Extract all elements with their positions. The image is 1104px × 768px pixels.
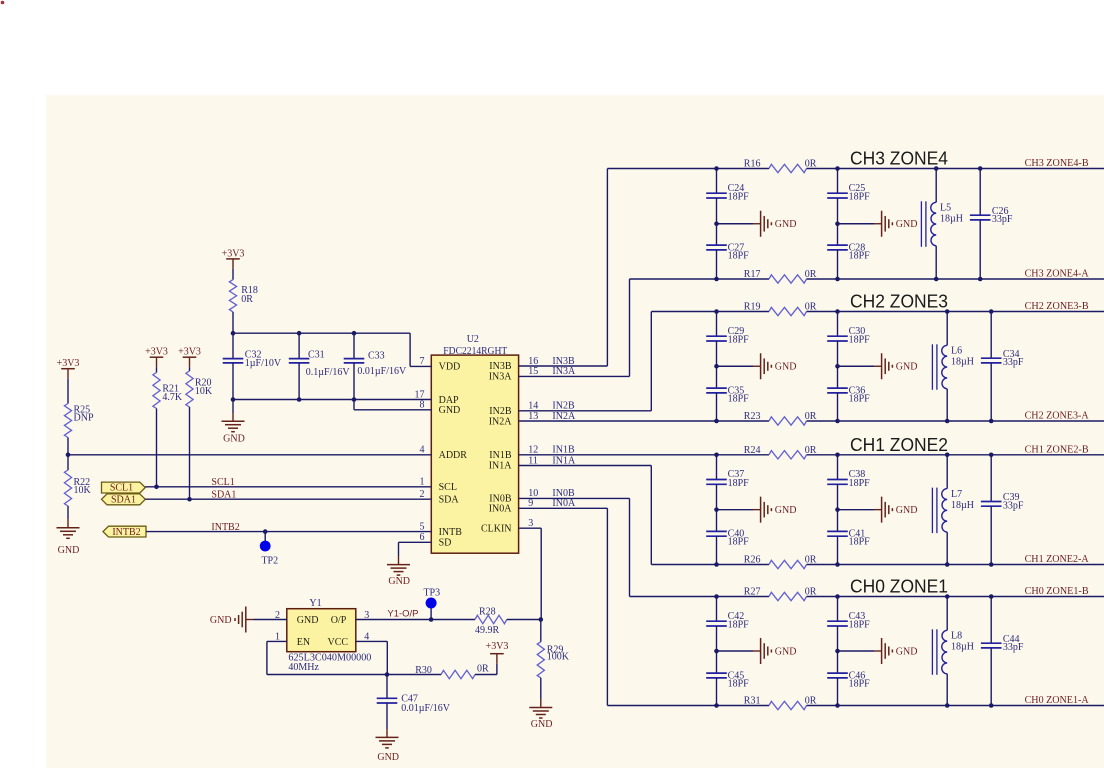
svg-text:11: 11 <box>528 455 538 466</box>
wire SD pin6 to ground <box>399 541 432 543</box>
junction dots on VDD rails <box>231 331 236 336</box>
svg-text:CH3 ZONE4: CH3 ZONE4 <box>850 148 948 169</box>
capacitor C25 18PF <box>837 169 839 194</box>
capacitor C37 18PF <box>716 455 718 480</box>
svg-text:IN1B: IN1B <box>489 450 512 461</box>
svg-text:+3V3: +3V3 <box>145 347 168 358</box>
wire to ground 1 <box>717 650 754 652</box>
svg-text:FDC2214RGHT: FDC2214RGHT <box>443 346 507 357</box>
svg-text:12: 12 <box>528 445 538 456</box>
wire CH2 ZONE3-A bottom rail <box>519 420 769 422</box>
wire IN0B pin10 to CH0 top <box>519 497 630 499</box>
svg-text:L5: L5 <box>940 203 951 214</box>
svg-text:SCL1: SCL1 <box>110 483 133 494</box>
svg-text:IN2A: IN2A <box>489 417 513 428</box>
wire IN0A pin9 to CH0 bottom <box>519 507 608 509</box>
junction dots <box>714 166 719 171</box>
capacitor C27 18PF <box>716 224 718 245</box>
node TP3 junction <box>429 617 434 622</box>
resistor R25 DNP <box>67 379 69 404</box>
capacitor C26 33pF <box>979 169 981 216</box>
svg-text:18PF: 18PF <box>728 678 750 689</box>
svg-text:ADDR: ADDR <box>439 450 468 461</box>
svg-text:4.7K: 4.7K <box>162 392 183 403</box>
inductor L8 18uH <box>946 597 948 631</box>
wire CH1 ZONE2-B top rail <box>519 454 769 456</box>
resistor R17 0R <box>769 275 807 283</box>
svg-text:SCL1: SCL1 <box>211 477 234 488</box>
svg-text:0R: 0R <box>805 555 817 566</box>
svg-text:Y1: Y1 <box>309 598 321 609</box>
wire CLKIN pin3 down to oscillator node <box>519 527 542 529</box>
svg-text:1: 1 <box>420 477 425 488</box>
wire to ground 1 <box>717 509 754 511</box>
wire ground rail branch to GND pin8 <box>353 400 355 410</box>
resistor R26 0R <box>769 560 807 568</box>
svg-text:100K: 100K <box>547 652 570 663</box>
wire CH3 ZONE4-B top rail <box>607 168 769 170</box>
wire CH0 ZONE1-A bottom rail <box>607 705 769 707</box>
svg-text:0R: 0R <box>241 294 253 305</box>
wire to ground 2 <box>838 365 875 367</box>
svg-text:GND: GND <box>377 752 399 763</box>
svg-text:7: 7 <box>420 356 425 367</box>
capacitor C47 0.01uF/16V <box>386 675 388 699</box>
wire R18 to VDD rail <box>232 312 234 333</box>
wire to ground 1 <box>717 223 754 225</box>
capacitor C36 18PF <box>837 366 839 388</box>
svg-text:0.01µF/16V: 0.01µF/16V <box>357 366 407 377</box>
svg-text:GND: GND <box>388 576 410 587</box>
svg-text:10K: 10K <box>74 485 92 496</box>
svg-text:SDA1: SDA1 <box>211 489 236 500</box>
svg-text:49.9R: 49.9R <box>475 625 500 636</box>
junction dots <box>714 594 719 599</box>
svg-text:40MHz: 40MHz <box>288 662 319 673</box>
svg-text:CH2 ZONE3-B: CH2 ZONE3-B <box>1025 301 1089 312</box>
capacitor C32 1uF/10V <box>232 333 234 358</box>
wire Y1 EN pin1 <box>267 640 287 642</box>
capacitor C43 18PF <box>837 597 839 622</box>
capacitor C39 33pF <box>990 455 992 502</box>
svg-text:IN1B: IN1B <box>552 445 575 456</box>
resistor R30 0R <box>387 674 441 676</box>
svg-text:18PF: 18PF <box>849 537 871 548</box>
svg-text:Y1-O/P: Y1-O/P <box>387 609 418 620</box>
capacitor C44 33pF <box>990 597 992 644</box>
svg-text:18µH: 18µH <box>951 357 974 368</box>
svg-text:18PF: 18PF <box>849 335 871 346</box>
ground GND <box>881 211 883 237</box>
svg-text:EN: EN <box>297 637 310 648</box>
wire CH0 ZONE1-B top rail <box>630 596 770 598</box>
svg-text:3: 3 <box>528 518 533 529</box>
svg-text:IN1A: IN1A <box>489 461 513 472</box>
capacitor C42 18PF <box>716 597 718 622</box>
svg-text:R17: R17 <box>744 269 761 280</box>
svg-text:SDA1: SDA1 <box>111 495 136 506</box>
svg-text:VDD: VDD <box>439 362 461 373</box>
svg-text:18PF: 18PF <box>849 192 871 203</box>
resistor R18 0R <box>232 269 234 280</box>
wire SDA1 to pin2 <box>145 498 431 500</box>
resistor R23 0R <box>769 417 807 425</box>
svg-text:CH0 ZONE1-B: CH0 ZONE1-B <box>1025 586 1089 597</box>
svg-text:10K: 10K <box>195 386 213 397</box>
cursor artifact dot top-left <box>1 1 5 5</box>
svg-text:CH3 ZONE4-B: CH3 ZONE4-B <box>1025 158 1089 169</box>
node R21-SCL1 junction <box>154 485 159 490</box>
svg-text:IN0A: IN0A <box>489 504 513 515</box>
ground GND <box>760 211 762 237</box>
wire VDD rail <box>233 332 410 334</box>
wire IN2A pin13 to CH2 bottom <box>518 420 520 422</box>
ground GND under R22 <box>57 527 80 529</box>
oscillator Y1 body <box>287 609 356 652</box>
wire INTB2 to pin5 <box>146 531 431 533</box>
svg-text:DNP: DNP <box>74 413 94 424</box>
ground GND left of Y1 <box>245 607 247 633</box>
svg-text:R30: R30 <box>415 665 432 676</box>
svg-text:33pF: 33pF <box>992 214 1013 225</box>
wire to TP2 <box>264 532 266 542</box>
svg-text:CH2 ZONE3: CH2 ZONE3 <box>850 291 948 312</box>
svg-text:SDA: SDA <box>439 494 460 505</box>
svg-text:SD: SD <box>439 538 452 549</box>
svg-text:GND: GND <box>297 615 319 626</box>
wire ground rail to DAP pin17 <box>233 399 431 401</box>
resistor R29 100K <box>540 620 542 642</box>
wire IN3A pin15 to CH3 bottom <box>519 375 630 377</box>
junction dots <box>714 453 719 458</box>
wire to ground 2 <box>838 223 875 225</box>
svg-text:1µF/10V: 1µF/10V <box>245 358 282 369</box>
svg-text:GND: GND <box>775 362 797 373</box>
svg-text:INTB2: INTB2 <box>211 522 239 533</box>
svg-text:VCC: VCC <box>328 637 349 648</box>
svg-text:GND: GND <box>775 219 797 230</box>
svg-text:L7: L7 <box>951 489 962 500</box>
resistor R19 0R <box>769 307 807 315</box>
wire R21 to SCL1 net <box>156 409 158 487</box>
wire VDD rail to pin7 <box>409 333 411 366</box>
svg-text:GND: GND <box>775 505 797 516</box>
resistor R28 49.9R <box>430 619 475 621</box>
ground GND <box>881 353 883 379</box>
inductor L6 18uH <box>946 312 948 346</box>
node R28-R29-CLKIN junction <box>539 617 544 622</box>
svg-text:+3V3: +3V3 <box>222 248 245 259</box>
inductor L7 18uH <box>946 455 948 489</box>
svg-text:15: 15 <box>528 366 538 377</box>
capacitor C28 18PF <box>837 224 839 245</box>
wire R25 to ADDR <box>67 438 69 455</box>
wire to ground 2 <box>838 509 875 511</box>
svg-text:IN3B: IN3B <box>489 361 512 372</box>
wire IN3B pin16 to CH3 top <box>519 365 608 367</box>
svg-text:18PF: 18PF <box>849 620 871 631</box>
svg-text:18PF: 18PF <box>849 250 871 261</box>
ground GND <box>760 497 762 523</box>
wire to ground 1 <box>717 365 754 367</box>
wire Y1 VCC pin4 <box>356 640 388 642</box>
capacitor C29 18PF <box>716 312 718 337</box>
resistor R21 4.7K <box>156 367 158 372</box>
resistor R31 0R <box>769 701 807 709</box>
svg-text:GND: GND <box>223 434 245 445</box>
svg-text:C31: C31 <box>308 350 325 361</box>
capacitor C34 33pF <box>990 312 992 359</box>
svg-text:CH0 ZONE1: CH0 ZONE1 <box>850 576 948 597</box>
svg-text:GND: GND <box>896 362 918 373</box>
capacitor C40 18PF <box>716 510 718 532</box>
svg-text:O/P: O/P <box>331 615 347 626</box>
svg-text:18µH: 18µH <box>951 500 974 511</box>
capacitor C45 18PF <box>716 651 718 673</box>
svg-text:14: 14 <box>528 401 538 412</box>
resistor R22 10K <box>67 455 69 470</box>
svg-text:18PF: 18PF <box>728 335 750 346</box>
svg-text:GND: GND <box>775 646 797 657</box>
svg-text:0R: 0R <box>805 269 817 280</box>
svg-text:0.01µF/16V: 0.01µF/16V <box>401 703 451 714</box>
capacitor C35 18PF <box>716 366 718 388</box>
svg-text:CH2 ZONE3-A: CH2 ZONE3-A <box>1025 411 1090 422</box>
capacitor C30 18PF <box>837 312 839 337</box>
capacitor C24 18PF <box>716 169 718 194</box>
ground GND under C47 <box>386 729 388 737</box>
svg-text:IN3B: IN3B <box>552 356 575 367</box>
wire CH2 ZONE3-B top rail <box>651 311 769 313</box>
svg-text:R24: R24 <box>744 445 761 456</box>
ground GND under C32 <box>222 420 245 422</box>
flag INTB2 <box>103 526 146 537</box>
svg-text:0R: 0R <box>805 159 817 170</box>
svg-text:INTB2: INTB2 <box>112 527 140 538</box>
svg-text:+3V3: +3V3 <box>178 347 201 358</box>
svg-text:TP3: TP3 <box>423 588 440 599</box>
svg-text:0R: 0R <box>805 445 817 456</box>
svg-text:L6: L6 <box>951 346 962 357</box>
node C47 junction <box>385 672 390 677</box>
wire R30 to +3V3 <box>496 664 498 675</box>
wire C32 to ground <box>232 400 234 414</box>
svg-text:IN0A: IN0A <box>552 498 576 509</box>
svg-text:IN2B: IN2B <box>489 406 512 417</box>
svg-text:TP2: TP2 <box>261 556 278 567</box>
svg-text:U2: U2 <box>467 334 479 345</box>
wire ADDR to pin4 <box>68 454 431 456</box>
svg-text:GND: GND <box>210 615 232 626</box>
svg-text:IN2B: IN2B <box>552 401 575 412</box>
svg-text:R31: R31 <box>744 696 761 707</box>
svg-text:+3V3: +3V3 <box>57 358 80 369</box>
wire to ground 2 <box>838 650 875 652</box>
svg-text:SCL: SCL <box>439 482 457 493</box>
svg-text:R27: R27 <box>744 587 761 598</box>
svg-text:R23: R23 <box>744 411 761 422</box>
ground GND <box>760 353 762 379</box>
svg-text:R16: R16 <box>744 159 761 170</box>
capacitor C41 18PF <box>837 510 839 532</box>
svg-text:16: 16 <box>528 356 538 367</box>
svg-text:18PF: 18PF <box>849 478 871 489</box>
junction dots <box>714 309 719 314</box>
svg-text:GND: GND <box>58 545 80 556</box>
svg-text:IN3A: IN3A <box>552 366 576 377</box>
ground GND under SD <box>387 564 410 566</box>
svg-text:9: 9 <box>528 498 533 509</box>
node ADDR junction <box>66 453 71 458</box>
wire R20 to SDA1 net <box>189 407 191 499</box>
wire to TP3 <box>430 608 432 620</box>
flag SCL1 <box>102 482 146 493</box>
wire Y1 O/P pin3 to CLKIN node <box>356 619 430 621</box>
wire IN2B pin14 to CH2 top <box>519 410 652 412</box>
svg-text:4: 4 <box>420 445 425 456</box>
svg-text:8: 8 <box>420 400 425 411</box>
svg-text:L8: L8 <box>951 631 962 642</box>
wire SCL1 to pin1 <box>145 486 431 488</box>
wire R22 to ground <box>67 506 69 519</box>
svg-text:R19: R19 <box>744 302 761 313</box>
ground GND under R29 <box>529 707 552 709</box>
svg-text:33pF: 33pF <box>1003 357 1024 368</box>
svg-text:CH1 ZONE2-A: CH1 ZONE2-A <box>1025 554 1090 565</box>
svg-text:0R: 0R <box>477 664 489 675</box>
wire IN1B pin12 to CH1 top <box>518 454 520 456</box>
svg-text:33pF: 33pF <box>1003 500 1024 511</box>
svg-text:0.1µF/16V: 0.1µF/16V <box>306 367 351 378</box>
svg-text:+3V3: +3V3 <box>486 641 509 652</box>
svg-text:R26: R26 <box>744 555 761 566</box>
svg-text:R28: R28 <box>479 607 496 618</box>
inductor L5 18uH <box>935 169 937 203</box>
svg-text:0R: 0R <box>805 587 817 598</box>
svg-text:13: 13 <box>528 411 538 422</box>
wire R29 to ground <box>540 678 542 699</box>
svg-text:6: 6 <box>420 532 425 543</box>
svg-text:INTB: INTB <box>439 527 463 538</box>
svg-text:5: 5 <box>420 521 425 532</box>
wire CH1 ZONE2-A bottom rail <box>651 564 769 566</box>
svg-text:18PF: 18PF <box>728 393 750 404</box>
svg-text:GND: GND <box>439 405 461 416</box>
node R20-SDA1 junction <box>187 497 192 502</box>
svg-text:18PF: 18PF <box>728 537 750 548</box>
svg-text:CLKIN: CLKIN <box>481 523 512 534</box>
svg-text:IN2A: IN2A <box>552 411 576 422</box>
capacitor C31 0.1uF/16V <box>298 333 300 358</box>
svg-text:CH0 ZONE1-A: CH0 ZONE1-A <box>1025 695 1090 706</box>
test point TP2 <box>260 541 271 552</box>
svg-text:18PF: 18PF <box>728 620 750 631</box>
ground GND <box>881 497 883 523</box>
resistor R27 0R <box>769 592 807 600</box>
svg-text:18PF: 18PF <box>849 393 871 404</box>
svg-text:18PF: 18PF <box>728 478 750 489</box>
capacitor C38 18PF <box>837 455 839 480</box>
svg-text:GND: GND <box>896 646 918 657</box>
resistor R20 10K <box>189 367 191 371</box>
svg-text:CH3 ZONE4-A: CH3 ZONE4-A <box>1025 269 1090 280</box>
svg-text:0R: 0R <box>805 696 817 707</box>
wire IN1A pin11 to CH1 bottom <box>519 465 652 467</box>
op-amp U2 FDC2214RGHT body <box>431 355 518 553</box>
test point TP3 <box>426 598 437 609</box>
flag SDA1 <box>102 494 146 505</box>
wire CH3 ZONE4-A bottom rail <box>630 278 770 280</box>
svg-text:18PF: 18PF <box>728 192 750 203</box>
svg-text:GND: GND <box>896 219 918 230</box>
node TP2 junction <box>263 529 268 534</box>
svg-text:IN1A: IN1A <box>552 455 576 466</box>
resistor R24 0R <box>769 451 807 459</box>
svg-text:GND: GND <box>896 505 918 516</box>
svg-text:GND: GND <box>531 719 553 730</box>
svg-text:CH1 ZONE2: CH1 ZONE2 <box>850 434 948 455</box>
svg-text:0R: 0R <box>805 411 817 422</box>
svg-text:CH1 ZONE2-B: CH1 ZONE2-B <box>1025 444 1089 455</box>
ground GND <box>881 638 883 664</box>
wire Y1 GND pin2 <box>254 619 287 621</box>
svg-text:C33: C33 <box>368 351 385 362</box>
svg-text:33pF: 33pF <box>1003 642 1024 653</box>
capacitor C46 18PF <box>837 651 839 673</box>
ground GND <box>760 638 762 664</box>
svg-text:2: 2 <box>420 489 425 500</box>
capacitor C33 0.01uF/16V <box>353 333 355 358</box>
svg-text:0R: 0R <box>805 302 817 313</box>
svg-text:18µH: 18µH <box>940 214 963 225</box>
svg-text:18PF: 18PF <box>728 250 750 261</box>
svg-text:18PF: 18PF <box>849 678 871 689</box>
svg-text:18µH: 18µH <box>951 642 974 653</box>
svg-text:IN3A: IN3A <box>489 372 513 383</box>
resistor R16 0R <box>769 164 807 172</box>
